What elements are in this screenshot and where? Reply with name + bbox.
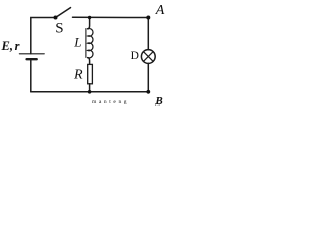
svg-text:A: A (155, 3, 165, 18)
svg-text:L: L (73, 35, 81, 50)
svg-text:E,r: E,r (1, 39, 20, 53)
svg-text:1.1: 1.1 (155, 102, 161, 106)
svg-text:S: S (55, 21, 63, 37)
svg-text:D: D (131, 50, 139, 62)
svg-text:manteng: manteng (92, 99, 129, 105)
svg-text:R: R (73, 68, 83, 83)
